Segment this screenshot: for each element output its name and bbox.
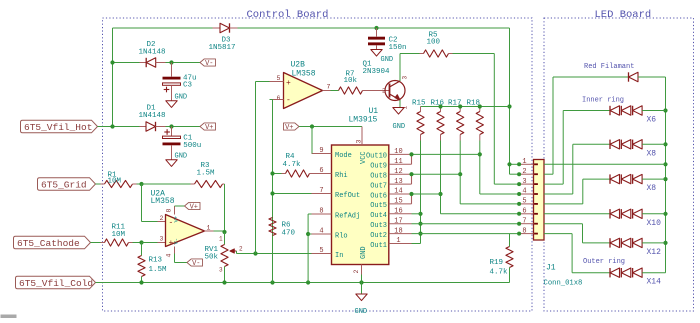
svg-text:3: 3 — [219, 267, 223, 274]
svg-text:X6: X6 — [647, 116, 657, 125]
svg-text:V-: V- — [205, 60, 213, 68]
svg-text:U2B: U2B — [291, 61, 306, 70]
svg-text:GND: GND — [360, 246, 368, 259]
svg-text:V+: V+ — [285, 124, 293, 132]
svg-text:R6: R6 — [282, 222, 292, 230]
svg-text:C3: C3 — [183, 82, 193, 90]
svg-text:1.5M: 1.5M — [149, 266, 168, 274]
svg-text:Out7: Out7 — [370, 182, 387, 190]
svg-text:7: 7 — [522, 217, 526, 225]
svg-text:470: 470 — [282, 230, 296, 238]
svg-text:4.7k: 4.7k — [490, 269, 509, 277]
svg-text:X8: X8 — [647, 184, 657, 193]
svg-text:LM358: LM358 — [151, 197, 175, 206]
svg-text:6T5_Vfil_Hot: 6T5_Vfil_Hot — [24, 122, 92, 133]
svg-text:GND: GND — [355, 308, 368, 316]
svg-text:5: 5 — [522, 198, 526, 206]
svg-text:5: 5 — [277, 75, 281, 82]
svg-text:2: 2 — [382, 88, 386, 95]
svg-text:50k: 50k — [205, 254, 219, 262]
svg-text:V+: V+ — [205, 124, 213, 132]
svg-text:8: 8 — [319, 208, 323, 216]
svg-text:4.7k: 4.7k — [283, 161, 302, 169]
svg-text:1N4148: 1N4148 — [139, 49, 166, 57]
svg-text:18: 18 — [394, 227, 402, 235]
svg-text:Outer ring: Outer ring — [583, 258, 625, 266]
svg-text:Out5: Out5 — [370, 202, 387, 210]
svg-text:Out2: Out2 — [370, 232, 387, 240]
svg-text:6T5_Cathode: 6T5_Cathode — [17, 238, 80, 249]
svg-text:Out8: Out8 — [370, 173, 387, 181]
svg-text:Inner ring: Inner ring — [582, 97, 624, 105]
svg-text:6T5_Vfil_Cold: 6T5_Vfil_Cold — [19, 278, 93, 289]
svg-text:17: 17 — [394, 217, 402, 225]
svg-text:X14: X14 — [647, 278, 662, 287]
svg-text:2: 2 — [160, 215, 164, 222]
svg-text:1: 1 — [396, 237, 400, 245]
svg-text:V-: V- — [192, 260, 200, 268]
svg-text:+: + — [286, 79, 291, 88]
svg-text:2: 2 — [522, 168, 526, 176]
svg-text:9: 9 — [319, 147, 323, 155]
svg-text:3: 3 — [401, 76, 408, 80]
svg-text:100: 100 — [427, 39, 441, 47]
svg-text:R4: R4 — [286, 153, 296, 161]
svg-text:R13: R13 — [149, 257, 163, 265]
svg-text:15: 15 — [394, 198, 402, 206]
svg-text:Rhi: Rhi — [335, 172, 348, 180]
svg-text:14: 14 — [394, 188, 402, 196]
svg-text:10M: 10M — [112, 231, 126, 239]
svg-text:Control Board: Control Board — [247, 9, 329, 21]
svg-text:150n: 150n — [389, 44, 407, 52]
svg-text:1: 1 — [219, 236, 223, 243]
svg-text:3: 3 — [160, 236, 164, 243]
svg-text:GND: GND — [175, 94, 188, 102]
svg-text:1N4148: 1N4148 — [139, 112, 166, 120]
svg-text:10k: 10k — [344, 77, 358, 85]
svg-text:6: 6 — [319, 167, 323, 175]
svg-text:12: 12 — [394, 168, 402, 176]
svg-text:3: 3 — [356, 140, 363, 144]
svg-text:V+: V+ — [173, 216, 180, 223]
svg-text:8: 8 — [166, 209, 173, 213]
svg-text:4: 4 — [522, 188, 526, 196]
svg-text:Out9: Out9 — [370, 163, 387, 171]
svg-text:16: 16 — [394, 208, 402, 216]
svg-text:1.5M: 1.5M — [197, 170, 216, 178]
svg-text:V-: V- — [173, 238, 180, 245]
svg-text:Conn_01x8: Conn_01x8 — [544, 280, 583, 288]
svg-text:13: 13 — [394, 178, 402, 186]
svg-text:4: 4 — [319, 228, 323, 236]
svg-text:-: - — [286, 96, 291, 105]
svg-text:3: 3 — [522, 178, 526, 186]
svg-text:Out10: Out10 — [366, 153, 387, 161]
svg-text:X8: X8 — [647, 149, 657, 158]
svg-text:J1: J1 — [546, 264, 556, 273]
svg-text:8: 8 — [522, 227, 526, 235]
svg-text:R19: R19 — [490, 259, 504, 267]
svg-text:RefOut: RefOut — [335, 192, 360, 200]
svg-text:2: 2 — [353, 270, 360, 274]
svg-text:7: 7 — [319, 187, 323, 195]
svg-text:Out1: Out1 — [370, 242, 387, 250]
svg-text:LED Board: LED Board — [595, 9, 652, 21]
svg-text:2N3904: 2N3904 — [363, 68, 391, 76]
svg-text:1N5817: 1N5817 — [209, 44, 236, 52]
svg-text:7: 7 — [327, 84, 331, 91]
svg-text:RefAdj: RefAdj — [335, 212, 360, 220]
svg-text:1: 1 — [522, 158, 526, 166]
svg-text:X12: X12 — [647, 248, 662, 257]
svg-text:Mode: Mode — [335, 152, 352, 160]
svg-text:LM358: LM358 — [292, 70, 316, 79]
svg-text:4: 4 — [166, 254, 173, 258]
svg-text:R15: R15 — [412, 100, 426, 108]
svg-text:10M: 10M — [108, 177, 122, 185]
svg-text:GND: GND — [381, 56, 394, 64]
svg-text:6T5_Grid: 6T5_Grid — [41, 179, 87, 190]
svg-text:6: 6 — [277, 95, 281, 102]
svg-text:Red Filamant: Red Filamant — [584, 63, 634, 71]
svg-text:5: 5 — [319, 247, 323, 255]
svg-text:X10: X10 — [647, 219, 662, 228]
svg-text:6: 6 — [522, 208, 526, 216]
svg-text:2: 2 — [239, 246, 243, 253]
svg-text:10: 10 — [394, 148, 402, 156]
svg-text:Out3: Out3 — [370, 222, 387, 230]
svg-text:1: 1 — [207, 225, 211, 232]
svg-text:GND: GND — [393, 123, 406, 131]
svg-text:In: In — [335, 252, 343, 260]
svg-text:Rlo: Rlo — [335, 232, 348, 240]
svg-text:11: 11 — [394, 158, 402, 166]
svg-text:Out6: Out6 — [370, 192, 387, 200]
svg-text:500u: 500u — [183, 142, 201, 150]
svg-text:V+: V+ — [190, 204, 198, 212]
svg-text:LM3915: LM3915 — [349, 116, 378, 125]
svg-text:Out4: Out4 — [370, 212, 387, 220]
